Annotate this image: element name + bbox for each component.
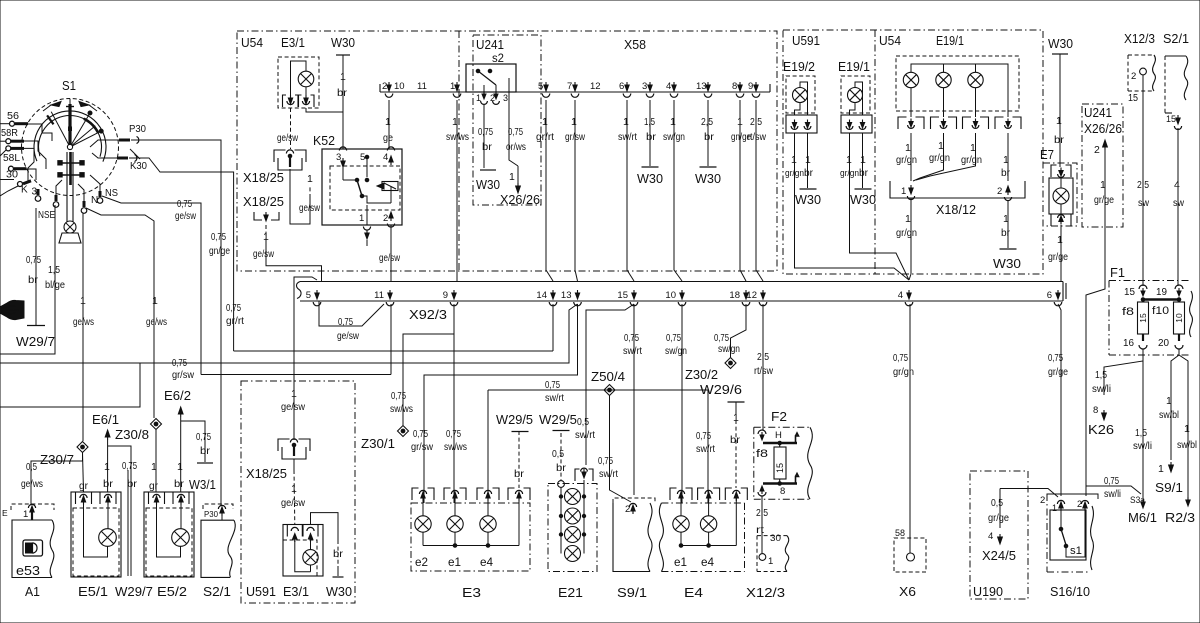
svg-text:sw/gn: sw/gn xyxy=(665,345,687,357)
svg-text:sw/li: sw/li xyxy=(1133,440,1152,452)
wire pin9 down to E3 e1 xyxy=(453,304,455,503)
label E19/1 (right) xyxy=(936,33,964,48)
svg-text:sw/ws: sw/ws xyxy=(444,441,467,453)
svg-text:0,75: 0,75 xyxy=(413,428,428,440)
svg-text:sw/rt: sw/rt xyxy=(599,468,618,480)
wire F2 to X12/3 xyxy=(761,496,763,553)
wire pin15 branch to E21 xyxy=(586,304,634,465)
svg-text:W29/5: W29/5 xyxy=(496,413,533,427)
label br (W29/7 mid) xyxy=(127,478,138,490)
wire E19/2 gr/gn xyxy=(795,133,910,280)
control unit box U54 (interior lamp/X58 area) xyxy=(237,31,777,271)
svg-text:1: 1 xyxy=(805,154,811,166)
wire X58 pin13 to W30 xyxy=(707,100,709,166)
label e4 (E4) xyxy=(701,557,715,569)
label ge/ws (2) xyxy=(146,316,167,328)
svg-text:4: 4 xyxy=(666,81,671,92)
label 0,75 (W3/1) xyxy=(196,431,211,443)
svg-text:ge/ws: ge/ws xyxy=(21,478,43,490)
svg-text:1: 1 xyxy=(291,483,297,495)
wire N ge/ws down to Z30/7 xyxy=(82,213,84,441)
svg-text:0,75: 0,75 xyxy=(545,379,560,391)
svg-text:0,75: 0,75 xyxy=(1048,352,1063,364)
svg-text:ge/ws: ge/ws xyxy=(146,316,167,328)
X92/3 pin 18 xyxy=(729,290,749,306)
label 19 (F1) xyxy=(1156,287,1167,298)
svg-text:Z50/4: Z50/4 xyxy=(591,370,625,384)
X92/3 pin 11 xyxy=(374,290,394,306)
svg-text:1: 1 xyxy=(791,154,797,166)
svg-text:U591: U591 xyxy=(792,33,820,48)
label sw (S2/1) xyxy=(1173,197,1184,209)
label grgn (X18/12) xyxy=(896,227,917,239)
svg-text:1: 1 xyxy=(177,461,183,473)
svg-text:2: 2 xyxy=(1131,71,1136,82)
label sw/li (M6/1) xyxy=(1133,440,1152,452)
svg-text:sw: sw xyxy=(1173,197,1184,209)
label sw/bl (S9/1 ref) xyxy=(1159,409,1179,421)
svg-text:6: 6 xyxy=(619,81,624,92)
switch S2/1 (bottom) xyxy=(201,504,235,577)
label br (E7) xyxy=(1054,134,1065,146)
svg-text:9: 9 xyxy=(443,290,448,301)
wire pin13 to E3 e2 xyxy=(424,304,578,503)
svg-text:ge: ge xyxy=(383,132,393,144)
switch contact path N xyxy=(78,184,84,201)
svg-text:3: 3 xyxy=(503,93,508,103)
svg-text:sw/ws: sw/ws xyxy=(390,403,413,415)
label gr/rt xyxy=(226,315,244,327)
svg-text:1: 1 xyxy=(768,556,773,567)
svg-text:f8: f8 xyxy=(756,448,768,460)
svg-text:19: 19 xyxy=(1156,287,1167,298)
wire E6/1 branch to W29/7 pair xyxy=(108,446,131,576)
svg-text:E6/1: E6/1 xyxy=(92,413,119,427)
branch pin9 to Z30/1 xyxy=(403,334,454,425)
svg-text:S2/1: S2/1 xyxy=(1163,31,1189,46)
label 0,75 (e4 wire) xyxy=(696,430,711,442)
headlamp unit A1 xyxy=(2,504,54,578)
svg-text:6: 6 xyxy=(1047,290,1052,301)
node Z50/4 xyxy=(604,385,615,396)
lamp unit E19/1 (U54) xyxy=(896,56,1019,111)
festoon lamp E7 xyxy=(1043,163,1077,226)
label S9/1 (ref) xyxy=(1155,480,1183,495)
svg-text:sw/rt: sw/rt xyxy=(575,429,595,441)
svg-text:NSE: NSE xyxy=(38,210,55,221)
label 1 (E5/2 gr) xyxy=(151,461,157,473)
X92/3 pin 12 xyxy=(746,290,766,306)
label 1 (loop) xyxy=(307,173,313,185)
svg-text:gr/gn: gr/gn xyxy=(840,168,859,179)
svg-text:X18/25: X18/25 xyxy=(243,195,284,209)
label br (E19/1u) xyxy=(859,167,868,179)
svg-text:4: 4 xyxy=(988,531,993,542)
label 15 rotated (F2) xyxy=(775,463,785,473)
svg-text:1: 1 xyxy=(1057,234,1063,246)
svg-text:sw/rt: sw/rt xyxy=(618,131,637,143)
svg-text:1: 1 xyxy=(1100,179,1106,191)
lamp unit E19/1 (U591) xyxy=(841,76,872,133)
svg-text:X26/26: X26/26 xyxy=(500,193,540,207)
label sw/rt (e4 wire) xyxy=(696,443,715,455)
wire s2 pin1 to W30 xyxy=(483,104,485,168)
wire NS to ge/sw riser xyxy=(102,196,201,375)
svg-text:U241: U241 xyxy=(476,38,504,52)
label br (W30 u54) xyxy=(337,87,348,99)
label X18/25 (U591) xyxy=(246,467,287,481)
svg-text:1: 1 xyxy=(860,154,866,166)
svg-text:0,75: 0,75 xyxy=(196,431,211,443)
svg-text:3: 3 xyxy=(32,187,38,198)
switch contact path 58R xyxy=(24,141,46,169)
s2 pin 2 xyxy=(490,91,499,104)
label ge/sw (U591 lamp) xyxy=(281,497,305,509)
label sw/rt (p15) xyxy=(623,345,642,357)
label sw/bl (R2/3) xyxy=(1177,439,1197,451)
fuse box F1 xyxy=(1109,281,1192,356)
wire pin12 to F2 xyxy=(762,304,764,430)
svg-text:0,5: 0,5 xyxy=(552,448,564,460)
svg-text:X18/25: X18/25 xyxy=(243,171,284,185)
svg-text:br: br xyxy=(333,548,344,560)
wire W30 to K52 pin3 xyxy=(342,112,344,149)
svg-text:f10: f10 xyxy=(1152,305,1169,317)
svg-text:W30: W30 xyxy=(476,178,500,192)
connector X12/3 (top) xyxy=(1124,31,1155,91)
svg-text:0,5: 0,5 xyxy=(991,497,1003,509)
label X58 xyxy=(624,37,646,52)
wire X18/12 pin1 down xyxy=(909,198,911,280)
label ge/sw (loop) xyxy=(299,202,320,214)
X58 spare pin 10 xyxy=(394,81,405,92)
connector rail X92/3 xyxy=(297,282,1067,302)
svg-text:1: 1 xyxy=(340,71,346,83)
label gr/ge (U190) xyxy=(988,512,1009,524)
X58 pin 9 xyxy=(748,81,760,97)
svg-text:br: br xyxy=(1001,227,1010,239)
svg-text:R2/3: R2/3 xyxy=(1165,510,1195,525)
svg-text:56: 56 xyxy=(7,111,19,122)
lamp unit E19/2 xyxy=(786,76,817,133)
label U190 xyxy=(973,584,1003,599)
label X26/26 (U241) xyxy=(500,193,540,207)
pointing hand symbol xyxy=(0,300,24,319)
svg-text:1,5: 1,5 xyxy=(1135,427,1147,439)
label 1,5 (K26) xyxy=(1095,369,1107,381)
X58 pin 1 xyxy=(450,81,461,97)
terminal NS xyxy=(97,188,118,203)
relay K52 box xyxy=(322,149,402,225)
label 1,5 (M6/1) xyxy=(1135,427,1147,439)
label 8 (K26) xyxy=(1093,405,1098,416)
X58 pin 2 xyxy=(382,81,393,97)
label 15 (F1) xyxy=(1124,287,1135,298)
X92/3 pin 5 xyxy=(306,290,321,306)
svg-text:1: 1 xyxy=(670,116,676,128)
label 0,75 (sw/ws Z30/1) xyxy=(391,390,406,402)
label sw/rt (X58p6) xyxy=(618,131,637,143)
svg-text:S3a: S3a xyxy=(1130,495,1146,506)
wire pin14 to gr/rt rail xyxy=(234,304,553,351)
node Z30/2 xyxy=(725,358,736,369)
label E3/1 (bottom) xyxy=(283,585,309,599)
wire E6/2 branch to W3/1 xyxy=(181,421,205,462)
svg-text:br: br xyxy=(482,141,493,153)
svg-text:15: 15 xyxy=(1166,114,1176,125)
switch contact path P30 xyxy=(90,140,119,147)
svg-text:br: br xyxy=(337,87,348,99)
svg-text:P30: P30 xyxy=(204,509,218,519)
wire Z30/8 to E5/2 xyxy=(155,430,157,493)
label 0,75 (gn/ge) xyxy=(211,231,226,243)
label br (X18/12) xyxy=(1001,227,1010,239)
label ge/sw (K52pin2) xyxy=(379,252,400,264)
svg-text:E19/1: E19/1 xyxy=(936,33,964,48)
svg-text:0,75: 0,75 xyxy=(624,332,639,344)
label 2,5 (br X58) xyxy=(701,116,713,128)
wire pin10 to E4 e1 xyxy=(681,304,683,503)
label br (E3 p4) xyxy=(514,468,525,480)
svg-text:E21: E21 xyxy=(558,585,583,600)
svg-text:15: 15 xyxy=(775,463,785,473)
svg-text:2: 2 xyxy=(1094,144,1100,156)
label U591 (top right box) xyxy=(792,33,820,48)
ground W30 (X58 pin13) xyxy=(695,167,721,186)
svg-text:0,75: 0,75 xyxy=(446,428,461,440)
label 1 (gn/ge X58) xyxy=(737,116,743,128)
label 16 (F1) xyxy=(1123,338,1134,349)
label U54 (right) xyxy=(879,33,901,48)
svg-text:X26/26: X26/26 xyxy=(1084,122,1122,136)
label E7 xyxy=(1040,147,1054,162)
svg-text:1,5: 1,5 xyxy=(1095,369,1107,381)
wire E19/1u gr/gn xyxy=(850,133,910,280)
ground W30 (U54) xyxy=(336,55,350,149)
wire pin6 to S16/10 pin1 xyxy=(1058,304,1061,496)
svg-text:br: br xyxy=(704,131,715,143)
svg-text:E4: E4 xyxy=(684,585,703,600)
svg-text:58: 58 xyxy=(895,528,905,539)
wire pin11 to S1 rail xyxy=(201,304,391,375)
svg-text:W29/7: W29/7 xyxy=(115,585,153,599)
label e1 xyxy=(448,557,461,569)
svg-text:0,75: 0,75 xyxy=(122,460,137,472)
svg-text:ge/sw: ge/sw xyxy=(253,248,274,260)
label br (E5/2 label) xyxy=(174,478,185,490)
svg-text:1: 1 xyxy=(905,213,911,225)
wire X58 pin9 down xyxy=(756,100,763,281)
svg-text:S9/1: S9/1 xyxy=(617,585,647,600)
label E3/1 (top) xyxy=(281,35,305,50)
svg-text:2: 2 xyxy=(383,213,388,224)
wire X18/12 pin2 to W30 xyxy=(1007,200,1009,248)
svg-text:1: 1 xyxy=(104,461,110,473)
label 0,75 (Z50/4) xyxy=(545,379,560,391)
label grge (E7) xyxy=(1048,251,1068,263)
label grgn (E19/1a) xyxy=(896,154,917,166)
svg-text:rt: rt xyxy=(756,524,764,536)
X58 spare pin 12 xyxy=(590,81,601,92)
wire X58 pin8 down xyxy=(740,100,746,281)
label sw/gn (p10) xyxy=(665,345,687,357)
svg-text:13: 13 xyxy=(561,290,572,301)
label S9/1 (bottom) xyxy=(617,585,647,600)
label 2,5 (F2 out) xyxy=(756,507,768,519)
label 4 (S2/1) xyxy=(1174,179,1180,191)
wire lamp to ground joint xyxy=(306,108,343,112)
svg-text:e1: e1 xyxy=(674,557,687,569)
svg-text:ge/sw: ge/sw xyxy=(281,401,305,413)
svg-text:gr/rt: gr/rt xyxy=(226,315,244,327)
label 2 (X26/26) xyxy=(1094,144,1100,156)
E19/1 internal rail xyxy=(911,64,1008,117)
svg-text:2: 2 xyxy=(1077,499,1082,509)
svg-text:1: 1 xyxy=(80,295,86,307)
terminal 56 xyxy=(0,111,28,126)
ground W29/7 xyxy=(16,326,55,350)
ground W29/6 xyxy=(700,383,745,415)
svg-text:1: 1 xyxy=(307,173,313,185)
svg-text:1: 1 xyxy=(23,509,28,520)
terminal 3 xyxy=(32,187,41,202)
label E21 xyxy=(558,585,583,600)
label 1 (E19/1d) xyxy=(1003,154,1009,166)
svg-text:br: br xyxy=(804,167,813,179)
svg-text:1: 1 xyxy=(385,116,391,128)
label 0,75 (e2) xyxy=(413,428,428,440)
svg-text:br: br xyxy=(174,478,185,490)
svg-text:sw/gn: sw/gn xyxy=(718,343,740,355)
wire E19/1u br to W30 xyxy=(862,133,864,188)
X92/3 pin 9 xyxy=(443,290,458,306)
svg-text:1: 1 xyxy=(901,186,906,197)
svg-text:Z30/2: Z30/2 xyxy=(685,368,718,382)
control unit U190 xyxy=(970,471,1028,599)
svg-text:H: H xyxy=(775,430,782,441)
svg-text:U241: U241 xyxy=(1084,106,1112,120)
label 0,75 (gr/rt) xyxy=(226,302,241,314)
svg-text:10: 10 xyxy=(665,290,676,301)
wire E3/1 to X18/25 xyxy=(290,108,292,149)
svg-text:gr/gn: gr/gn xyxy=(893,366,914,378)
E4 internal rail xyxy=(679,544,736,548)
label sw/li (S16) xyxy=(1104,488,1121,500)
label 0,75 (p4) xyxy=(893,352,908,364)
svg-text:12: 12 xyxy=(746,290,757,301)
label br (s2) xyxy=(482,141,493,153)
svg-text:5: 5 xyxy=(306,290,311,301)
svg-text:br: br xyxy=(103,478,114,490)
svg-text:0,75: 0,75 xyxy=(338,316,353,328)
node Z30/7 xyxy=(77,442,88,453)
switch contact path NSE xyxy=(56,180,62,195)
label E5/2 xyxy=(157,585,187,599)
svg-text:F2: F2 xyxy=(771,409,787,424)
svg-text:20: 20 xyxy=(1158,338,1169,349)
svg-text:K52: K52 xyxy=(313,133,335,148)
wire E3/1 W30 branch xyxy=(311,513,339,576)
label ge/sw (p5) xyxy=(337,330,359,342)
wire into U591 xyxy=(293,381,295,440)
wire branch to second ge/ws xyxy=(86,208,154,418)
label S3a xyxy=(1130,495,1146,506)
svg-text:W30: W30 xyxy=(326,585,352,599)
label 0,75 (gr/sw left) xyxy=(172,357,187,369)
svg-text:Z30/7: Z30/7 xyxy=(40,453,74,467)
wire F1 pin16 to K26 xyxy=(1102,349,1143,420)
label gr/sw (e2) xyxy=(411,441,433,453)
svg-text:2,5: 2,5 xyxy=(750,116,762,128)
wire pin13 to left edge xyxy=(0,304,578,363)
label ge/ws (A1) xyxy=(21,478,43,490)
svg-text:gn/ge: gn/ge xyxy=(209,245,230,257)
wire X12/3 to F1 pin15 xyxy=(1142,75,1144,286)
svg-text:U54: U54 xyxy=(879,33,901,48)
svg-text:K26: K26 xyxy=(1088,422,1114,437)
terminal 58R xyxy=(0,128,24,144)
ground W3/1 xyxy=(189,463,216,492)
svg-text:br: br xyxy=(859,167,868,179)
svg-text:gr/gn: gr/gn xyxy=(896,154,917,166)
svg-text:rt/sw: rt/sw xyxy=(747,131,766,143)
label X6 xyxy=(899,584,916,599)
svg-text:X18/12: X18/12 xyxy=(936,203,976,217)
label 1 (E5/1 br) xyxy=(104,461,110,473)
label 2 (S16/10 left) xyxy=(1040,495,1045,506)
svg-text:sw: sw xyxy=(1138,197,1149,209)
svg-text:M6/1: M6/1 xyxy=(1128,510,1157,525)
fuse box F2 xyxy=(754,427,813,499)
label 0,75 (p15) xyxy=(624,332,639,344)
control unit box U591/U54 (E19 lamps) xyxy=(783,30,1043,274)
svg-text:W30: W30 xyxy=(850,193,876,207)
svg-text:M: M xyxy=(68,127,73,133)
E19/1 pin brackets xyxy=(898,117,1021,129)
label U241 (right) xyxy=(1084,106,1112,120)
label 1 (sw/gn) xyxy=(670,116,676,128)
svg-text:S16/10: S16/10 xyxy=(1050,584,1090,599)
X58 pin 13 xyxy=(696,81,712,97)
label 0,5 (U190) xyxy=(991,497,1003,509)
connector X12/3 (bottom) xyxy=(757,533,789,572)
svg-text:X58: X58 xyxy=(624,37,646,52)
label e2 xyxy=(415,557,428,569)
label gr/gn (p4) xyxy=(893,366,914,378)
K52 pin 2 xyxy=(383,212,395,227)
label 1b (E19/2) xyxy=(805,154,811,166)
label 1 (E5/2 br) xyxy=(177,461,183,473)
label E6/2 xyxy=(164,389,191,403)
svg-text:sw/li: sw/li xyxy=(1104,488,1121,500)
label Z30/7 xyxy=(40,453,74,467)
svg-text:E3/1: E3/1 xyxy=(281,35,305,50)
svg-text:A1: A1 xyxy=(25,585,40,599)
svg-text:gr/ge: gr/ge xyxy=(1048,366,1068,378)
wire K52 pin1 down xyxy=(366,240,368,246)
label 1 (U591) xyxy=(291,388,297,400)
svg-text:bl/ge: bl/ge xyxy=(45,279,65,291)
turn signal lamp E5/1 xyxy=(71,492,121,577)
svg-text:S2/1: S2/1 xyxy=(203,585,231,599)
svg-text:5: 5 xyxy=(360,152,365,163)
svg-text:4: 4 xyxy=(898,290,903,301)
svg-text:W30: W30 xyxy=(331,35,355,50)
label E19/2 xyxy=(783,60,815,74)
label 0,75 (ge/sw riser) xyxy=(177,198,192,210)
wire S16/10 branch to M6/1 xyxy=(1086,486,1141,494)
label sw/ws (Z30/1) xyxy=(390,403,413,415)
